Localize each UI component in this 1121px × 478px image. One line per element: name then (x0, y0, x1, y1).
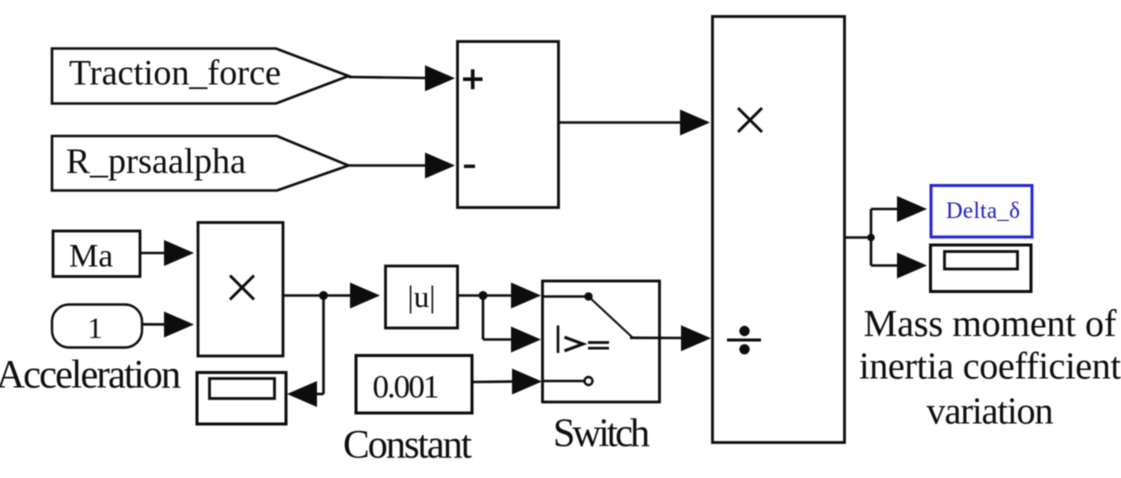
svg-text:inertia coefficient: inertia coefficient (859, 346, 1121, 388)
goto tag Delta_delta (931, 186, 1032, 238)
constant Ma (53, 231, 140, 277)
sum block (458, 42, 559, 208)
wire junction to Switch input 2 (483, 296, 541, 353)
svg-text:|u|: |u| (408, 279, 436, 314)
wire Traction_force to Sum (349, 65, 456, 91)
wire Constant to Switch input 3 (472, 369, 542, 395)
svg-text:Acceleration: Acceleration (0, 352, 181, 397)
svg-text:0.001: 0.001 (373, 370, 440, 406)
display block 1 (197, 373, 286, 425)
wire Inport to Product (142, 312, 194, 338)
inport 1 Acceleration (52, 305, 142, 348)
svg-text:Delta_δ: Delta_δ (946, 198, 1020, 223)
wire Abs to Switch input 1 (458, 283, 542, 309)
svg-text:Ma: Ma (69, 239, 113, 275)
svg-text:1: 1 (88, 312, 103, 345)
divide block (713, 17, 845, 443)
wire junction to Delta tag (871, 196, 927, 222)
wire junction to Display2 (871, 253, 927, 279)
constant 0.001 (356, 356, 472, 414)
svg-text:Traction_force: Traction_force (69, 53, 281, 93)
svg-text:Constant: Constant (343, 422, 472, 467)
svg-text:Switch: Switch (553, 410, 650, 455)
wire Divide to output junction (845, 209, 875, 266)
svg-text:R_prsaalpha: R_prsaalpha (66, 141, 246, 181)
wire Sum to Divide (559, 110, 711, 136)
wire junction to Display1 (287, 296, 324, 408)
wire Switch to Divide (630, 325, 711, 351)
svg-text:variation: variation (927, 391, 1054, 433)
display block 2 (931, 245, 1032, 292)
label Mass moment of inertia coefficient variation (859, 303, 1121, 433)
wire Product to Abs (283, 283, 380, 309)
switch block (543, 281, 660, 402)
from tag Traction_force (52, 49, 349, 104)
svg-text:Mass moment of: Mass moment of (864, 303, 1117, 345)
wire R_prsaalpha to Sum (349, 153, 456, 179)
abs block |u| (386, 266, 458, 328)
wire Ma to Product (140, 240, 194, 266)
from tag R_prsaalpha (52, 136, 349, 191)
product block (198, 223, 283, 357)
